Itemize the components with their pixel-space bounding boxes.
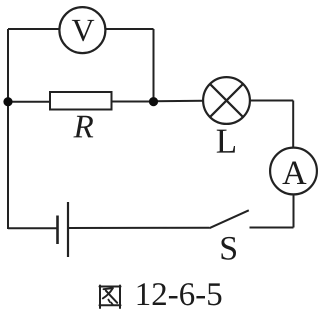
wire node B to lamp L (154, 100, 204, 103)
wire switch pivot to battery positive plate (68, 227, 209, 229)
battery cell: negative short plate (56, 216, 59, 245)
caption hanzi 图 (drawn) (100, 286, 121, 309)
node B junction dot (149, 97, 158, 106)
wire corner down to ammeter A top (292, 101, 294, 149)
caption text 12-6-5 (138, 283, 222, 305)
wire voltmeter to top-right corner (105, 28, 154, 30)
wire ammeter to switch right contact (250, 227, 294, 229)
wire node A to resistor R left lead (8, 101, 50, 103)
lamp L (203, 77, 250, 124)
label S (221, 237, 236, 260)
node A junction dot (3, 97, 12, 106)
resistor R (50, 92, 112, 110)
wire top-right corner down to node B (153, 29, 155, 102)
voltmeter label V (72, 20, 94, 41)
voltmeter U=V (59, 7, 105, 53)
wire ammeter A bottom down (293, 194, 295, 228)
wire battery negative plate to bottom-left corner (8, 227, 58, 229)
label R (73, 116, 93, 138)
ammeter A (270, 148, 317, 195)
ammeter label A (282, 162, 306, 184)
wire lamp L to corner above ammeter (250, 100, 294, 102)
label L (217, 130, 235, 153)
switch S blade (209, 210, 249, 228)
wire top-left to voltmeter (8, 28, 60, 30)
wire resistor R right lead to node B (112, 101, 154, 103)
wire left vertical (battery to top-left corner) (7, 29, 9, 229)
battery cell: positive long plate (67, 202, 69, 257)
